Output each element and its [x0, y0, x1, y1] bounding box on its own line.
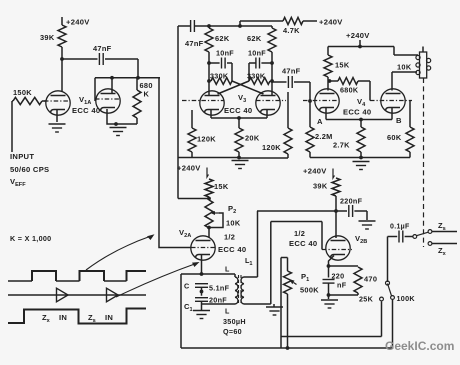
capacitor 47nF (V3 left) — [185, 20, 204, 48]
ground (V3) — [232, 161, 249, 169]
svg-text:ECC 40: ECC 40 — [224, 106, 252, 115]
resistor 330K left — [210, 72, 232, 85]
grid dash V1A-b — [95, 98, 120, 100]
svg-text:62K: 62K — [215, 34, 230, 43]
wire to ground — [366, 211, 368, 220]
svg-text:L: L — [225, 265, 230, 274]
wire cathode bridge — [329, 265, 359, 267]
svg-text:39K: 39K — [313, 182, 328, 191]
node 15K bottom — [207, 197, 211, 201]
label L value — [225, 307, 230, 316]
label V2B — [355, 234, 367, 245]
svg-text:1/2: 1/2 — [224, 233, 235, 242]
svg-text:ECC 40: ECC 40 — [343, 108, 371, 117]
svg-text:IN: IN — [105, 313, 113, 322]
wire cathode rail V3 — [211, 110, 267, 120]
svg-text:+240V: +240V — [303, 167, 327, 176]
label B — [396, 116, 402, 125]
svg-text:4.7K: 4.7K — [283, 26, 300, 35]
label ECC 40 (V3) — [224, 106, 252, 115]
label ECC 40 (V2A) — [218, 245, 246, 254]
wire 680K to grid B — [358, 81, 370, 101]
label 1/2 (V2A) — [224, 233, 235, 242]
svg-text:100K: 100K — [397, 294, 416, 303]
ground (C divider) — [193, 311, 210, 319]
wire P1 wiper column — [280, 258, 282, 349]
svg-text:0.1µF: 0.1µF — [390, 224, 410, 231]
svg-text:Zx: Zx — [438, 246, 447, 257]
svg-text:INPUT: INPUT — [10, 152, 34, 161]
svg-text:60K: 60K — [387, 133, 402, 142]
svg-text:150K: 150K — [13, 88, 32, 97]
svg-text:V2B: V2B — [355, 234, 367, 245]
svg-text:62K: 62K — [247, 34, 262, 43]
triode V2A — [191, 236, 215, 260]
inductor L winding — [202, 274, 238, 304]
node cathode V2B — [327, 264, 331, 268]
wire long V1 output to V2A grid — [159, 78, 191, 248]
wire cathode rail V4 — [326, 108, 392, 121]
grid dash V1A-a — [44, 100, 70, 102]
wire node to coupling cap — [62, 58, 98, 60]
label A — [317, 117, 323, 126]
svg-text:IN: IN — [59, 313, 67, 322]
contact Zx — [428, 242, 457, 246]
wire cross-couple right-to-left — [218, 81, 250, 94]
switch arm (gain) — [388, 284, 392, 296]
resistor 60K — [387, 127, 414, 152]
wire 4.7K to supply — [303, 20, 317, 22]
arrow to V2A cathode — [116, 262, 200, 297]
ground (follower cathode) — [110, 128, 127, 136]
wire waveform bottom — [8, 309, 146, 324]
wire tank bottom rail — [181, 346, 393, 350]
resistor 150K (input grid) — [13, 88, 46, 105]
triode V1A-b — [96, 89, 120, 113]
wire L1 column — [270, 222, 272, 305]
svg-text:47nF: 47nF — [93, 44, 112, 53]
wire cap to grid A — [308, 82, 312, 103]
node P2 bottom — [207, 226, 211, 230]
resistor 2.2M — [306, 127, 333, 152]
capacitor 220nF (cathode) — [323, 272, 347, 290]
svg-text:50/60 CPS: 50/60 CPS — [10, 165, 49, 174]
mechanical link dashed — [423, 78, 425, 247]
contact Zs — [428, 230, 457, 234]
svg-text:500K: 500K — [300, 286, 319, 295]
svg-text:C1: C1 — [184, 302, 193, 313]
svg-text:680K: 680K — [340, 86, 359, 95]
potentiometer 10K output — [397, 47, 431, 79]
wire cap to corner — [105, 59, 138, 77]
capacitor 10nF left — [209, 49, 234, 69]
pulse Zx — [32, 271, 56, 281]
svg-text:ECC 40: ECC 40 — [72, 106, 100, 115]
wire 10nF right down — [248, 63, 250, 81]
svg-text:P1: P1 — [301, 272, 309, 283]
wire L1 bottom — [244, 303, 271, 305]
svg-text:GeekIC.com: GeekIC.com — [385, 339, 454, 353]
svg-text:120K: 120K — [197, 135, 216, 144]
triode V4-A — [315, 89, 339, 113]
contact 25K — [359, 295, 383, 304]
svg-text:350µH: 350µH — [223, 317, 246, 326]
wire plate follower — [111, 78, 113, 94]
grid dash V3-a — [182, 100, 224, 102]
svg-text:1/2: 1/2 — [294, 229, 305, 238]
svg-text:220nF: 220nF — [340, 197, 363, 206]
ground (V2B cathode) — [321, 295, 338, 308]
resistor 15K (V4) — [324, 55, 350, 77]
svg-text:10K: 10K — [397, 63, 412, 72]
ground rail V4 — [310, 156, 410, 160]
svg-text:V3: V3 — [238, 93, 246, 104]
ground (V4) — [353, 162, 370, 170]
wire 62K left to top — [208, 26, 210, 28]
svg-text:15K: 15K — [214, 182, 229, 191]
label ECC 40 (V4) — [343, 108, 371, 117]
svg-text:10nF: 10nF — [248, 49, 266, 58]
svg-text:L: L — [225, 307, 230, 316]
label Zx IN — [42, 313, 67, 324]
capacitor C 5.1nF — [184, 282, 230, 293]
grid dash V2B — [322, 249, 352, 251]
wire P2 to V2A plate — [208, 228, 210, 238]
rail grid top — [271, 221, 322, 223]
svg-text:120K: 120K — [262, 143, 281, 152]
label 350uH — [223, 317, 246, 326]
label VEFF — [10, 177, 26, 188]
svg-text:39K: 39K — [40, 33, 55, 42]
label L1 (winding) — [245, 256, 253, 267]
ground rail V3 — [178, 157, 288, 160]
wire 100K riser — [392, 300, 394, 349]
wire P1 bottom — [287, 294, 289, 348]
svg-text:47nF: 47nF — [282, 67, 301, 76]
wire 680K bottom to cathode node — [114, 118, 137, 126]
wire tank top — [181, 272, 235, 276]
wire grid drop — [321, 222, 323, 250]
wire plate A — [327, 81, 329, 91]
svg-text:C: C — [184, 282, 190, 291]
svg-text:ECC 40: ECC 40 — [218, 245, 246, 254]
svg-text:K: K — [144, 90, 150, 99]
wire jog to 4.7K — [240, 21, 283, 26]
ground (grid return) — [266, 304, 283, 315]
svg-text:+240V: +240V — [177, 164, 201, 173]
potentiometer P2 — [205, 200, 241, 228]
resistor 39K (V2B plate) — [313, 178, 340, 196]
power +240V (V1 supply) — [62, 17, 90, 27]
resistor 4.7K — [283, 17, 303, 35]
wire 20K leads — [237, 118, 241, 159]
wire plate B to pot — [392, 72, 417, 91]
svg-text:47nF: 47nF — [185, 39, 204, 48]
svg-text:20nF: 20nF — [209, 296, 227, 305]
wire 25K riser — [381, 302, 383, 337]
svg-text:10nF: 10nF — [216, 49, 234, 58]
resistor 39K (V1 plate load) — [40, 25, 66, 47]
label ECC 40 (V1) — [72, 106, 100, 115]
wire input lead — [12, 101, 13, 152]
capacitor C1 20nF — [184, 296, 227, 314]
triode V2B — [326, 236, 350, 260]
svg-text:P2: P2 — [228, 204, 236, 215]
grid dash V4-B — [370, 100, 412, 102]
wire 120K left leads — [191, 110, 193, 158]
label 1/2 (V2B) — [294, 229, 305, 238]
buffer amp 2 — [107, 288, 119, 302]
svg-text:20K: 20K — [245, 134, 260, 143]
label K scale — [10, 234, 51, 243]
rail V3 top — [194, 24, 272, 28]
wire output drop — [386, 237, 390, 286]
power +240V (V2B feed) — [303, 167, 335, 179]
wire right plate column — [270, 52, 274, 95]
svg-text:VEFF: VEFF — [10, 177, 26, 188]
grid dash V4-A — [303, 100, 339, 102]
svg-text:K = X 1,000: K = X 1,000 — [10, 234, 51, 243]
label 50/60 CPS — [10, 165, 49, 174]
svg-text:25K: 25K — [359, 295, 374, 304]
wire 60K leads — [409, 101, 411, 158]
wire to 15K — [327, 47, 329, 56]
wire waveform rail upper — [8, 280, 127, 282]
resistor 330K right — [247, 72, 270, 85]
wire 680K top — [136, 78, 138, 90]
svg-text:5.1nF: 5.1nF — [209, 284, 230, 293]
triode V1A-a — [46, 91, 70, 115]
wire 39K to plate — [334, 196, 338, 238]
resistor 20K — [235, 128, 260, 152]
wire waveform rail middle — [8, 294, 146, 296]
svg-text:V1A: V1A — [79, 95, 91, 106]
label Zs IN — [88, 313, 113, 324]
potentiometer P1 — [281, 258, 319, 295]
label V3 — [238, 93, 246, 104]
resistor 2.7K — [333, 127, 365, 152]
wire left plate column — [207, 52, 211, 95]
rail switch return — [281, 336, 382, 338]
svg-text:10K: 10K — [226, 219, 241, 228]
wire 470 bottom — [329, 293, 359, 295]
watermark — [385, 339, 454, 353]
svg-text:2.7K: 2.7K — [333, 141, 350, 150]
resistor 62K left — [205, 28, 230, 52]
grid dash V3-b — [256, 100, 286, 102]
wire 39K to plate V1A — [61, 47, 63, 92]
pulse Zs — [80, 271, 105, 281]
wire plate rail drop to L1 top — [244, 211, 258, 277]
label V4 — [357, 97, 366, 108]
wire 2.7K leads — [360, 120, 362, 158]
rail V2B plate — [257, 210, 336, 212]
svg-text:Zx: Zx — [42, 313, 51, 324]
wire cap left down — [178, 26, 191, 199]
transformer core — [239, 275, 242, 305]
power +240V (V4 supply) — [346, 31, 370, 48]
label V1A — [79, 95, 91, 106]
svg-text:B: B — [396, 116, 402, 125]
contact 100K — [391, 294, 416, 303]
capacitor 0.1uF — [388, 224, 413, 243]
capacitor 220nF (plate) — [336, 197, 367, 218]
wire 62K right to top — [271, 26, 273, 28]
wire 10nF left down — [231, 63, 233, 81]
wire cap down — [327, 283, 331, 297]
svg-text:nF: nF — [337, 281, 347, 290]
label Zx — [438, 246, 447, 257]
svg-text:+240V: +240V — [346, 31, 370, 40]
wire cross-couple left-to-right — [232, 81, 264, 94]
label V2A — [179, 228, 191, 239]
power +240V (V2A feed) — [177, 164, 209, 178]
resistor 120K right — [262, 128, 292, 154]
node plate V1A — [60, 57, 64, 61]
wire C1 to ground — [201, 301, 203, 310]
svg-text:+240V: +240V — [319, 18, 343, 27]
resistor 62K right — [247, 28, 276, 52]
label INPUT — [10, 152, 34, 161]
ground (V1A cathode) — [49, 124, 66, 132]
contact common output — [413, 235, 417, 239]
svg-text:15K: 15K — [335, 61, 350, 70]
ground (220nF) — [359, 221, 376, 229]
wire supply to pot — [394, 47, 418, 56]
label L (winding) — [225, 265, 230, 274]
resistor 680K (V4) — [330, 78, 359, 95]
wire cathode V1A-a — [56, 110, 58, 122]
wire sync injection — [178, 198, 209, 200]
grid dash V2A — [191, 247, 215, 249]
triode V3-a — [200, 91, 224, 115]
label ECC 40 (V2B) — [289, 239, 317, 248]
arrow to V2A grid line — [86, 234, 155, 270]
resistor 15K (V2A) — [205, 179, 229, 197]
triode V4-B — [381, 89, 405, 113]
label Q=60 — [223, 327, 242, 336]
svg-text:A: A — [317, 117, 323, 126]
triode V3-b — [256, 91, 280, 115]
label Zs — [438, 221, 446, 232]
wire grid follower — [94, 78, 96, 101]
wire cathode V2B — [329, 256, 335, 278]
wire 120K right top — [287, 92, 289, 158]
pulse third — [127, 271, 147, 281]
switch arm output — [417, 232, 429, 236]
buffer amp 1 — [57, 288, 69, 302]
svg-text:2.2M: 2.2M — [315, 132, 333, 141]
node 15K-680K — [328, 77, 332, 83]
capacitor 10nF right — [248, 49, 272, 69]
resistor 680K (follower) — [133, 81, 153, 118]
svg-text:Q=60: Q=60 — [223, 327, 242, 336]
node between caps — [200, 287, 204, 295]
capacitor 47nF (V1 coupling) — [93, 44, 112, 65]
svg-text:470: 470 — [364, 275, 377, 284]
svg-text:+240V: +240V — [66, 18, 90, 27]
wire cathode V1A-b — [107, 109, 116, 124]
node rail 78 — [95, 76, 160, 80]
svg-text:L1: L1 — [245, 256, 253, 267]
wire cathode V2A — [201, 255, 203, 274]
wire 2.2M leads — [309, 101, 311, 158]
svg-text:V2A: V2A — [179, 228, 191, 239]
rail V4 top — [328, 46, 394, 48]
svg-text:ECC 40: ECC 40 — [289, 239, 317, 248]
resistor 470 — [354, 267, 377, 293]
power +240V (V3 supply) — [319, 18, 343, 27]
inductor L1 winding — [241, 277, 244, 304]
resistor 120K left — [188, 128, 216, 152]
wire tank left edge — [180, 274, 182, 348]
svg-text:Zs: Zs — [438, 221, 446, 232]
capacitor 47nF (V3 to V4) — [272, 67, 310, 89]
